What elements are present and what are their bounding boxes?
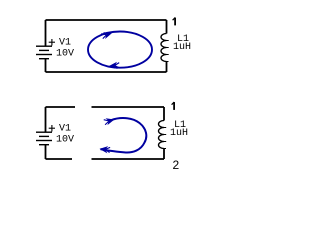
svg-text:10V: 10V bbox=[56, 49, 74, 60]
svg-text:1uH: 1uH bbox=[173, 42, 191, 53]
svg-text:V1: V1 bbox=[59, 124, 71, 135]
svg-text:2: 2 bbox=[173, 158, 180, 172]
svg-text:1uH: 1uH bbox=[170, 128, 188, 139]
svg-text:10V: 10V bbox=[56, 135, 74, 146]
svg-text:V1: V1 bbox=[59, 38, 71, 49]
